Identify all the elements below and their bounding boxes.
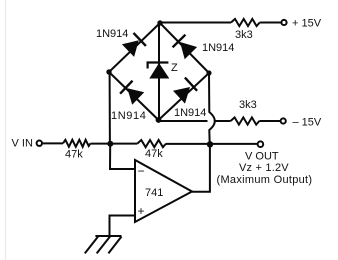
- wire: bridge edge left-node to bottom-node: [109, 72, 159, 120]
- svg-text:+: +: [138, 204, 145, 218]
- wire: V IN terminal to 47k input resistor: [42, 142, 63, 144]
- scan border artifact: [5, 0, 7, 260]
- zener diode Z: [148, 63, 170, 79]
- node: bridge left junction: [106, 69, 111, 74]
- wire: left node down to node A: [109, 72, 111, 144]
- wire: bridge edge top-node to right-node: [160, 23, 209, 73]
- wire: top node to +15V resistor: [160, 22, 231, 24]
- terminal circle +15V: [281, 20, 286, 25]
- wire: non-inverting input to ground: [110, 216, 136, 237]
- node: bridge right junction: [206, 70, 211, 75]
- svg-text:(Maximum Output): (Maximum Output): [217, 174, 313, 186]
- diode D1 1N914 (left node to top node): [122, 33, 146, 57]
- wire: zener branch vertical (top node to bottom node): [158, 23, 160, 120]
- svg-text:– 15V: – 15V: [293, 117, 322, 129]
- ground symbol: [85, 236, 122, 253]
- svg-text:1N914: 1N914: [202, 42, 234, 54]
- wire: op-amp output to node B: [192, 144, 210, 192]
- node: bridge bottom junction: [156, 117, 162, 123]
- diode D3 1N914 (bottom node to left node): [120, 81, 144, 105]
- resistor 3k3 (+15V branch): [231, 19, 260, 26]
- resistor 47k feedback: [137, 140, 166, 147]
- diode D4 1N914 (bottom node to right node): [173, 78, 197, 104]
- resistor 47k input: [63, 140, 91, 147]
- terminal circle V OUT: [258, 141, 264, 147]
- node: bridge top junction: [157, 20, 162, 25]
- svg-text:3k3: 3k3: [235, 29, 253, 41]
- node B junction (output): [207, 141, 213, 147]
- wire: bridge edge bottom-node to right-node: [159, 73, 210, 120]
- svg-text:1N914: 1N914: [174, 107, 206, 119]
- node A junction (summing input): [107, 141, 113, 147]
- svg-text:3k3: 3k3: [239, 99, 257, 111]
- svg-text:−: −: [138, 164, 145, 178]
- svg-text:Vz + 1.2V: Vz + 1.2V: [239, 162, 289, 174]
- wire: node A down and right to op-amp inverting input: [110, 144, 135, 169]
- svg-text:47k: 47k: [145, 148, 163, 160]
- svg-text:V OUT: V OUT: [245, 150, 279, 162]
- svg-text:1N914: 1N914: [111, 110, 146, 122]
- op-amp U1 741: [135, 160, 192, 222]
- svg-text:1N914: 1N914: [96, 28, 128, 40]
- wire: right node down with hop over -15V wire: [209, 73, 215, 144]
- svg-text:Z: Z: [171, 62, 178, 74]
- svg-text:+ 15V: + 15V: [292, 18, 322, 30]
- wire: resistor to +15V terminal: [260, 22, 281, 24]
- svg-text:47k: 47k: [65, 149, 83, 161]
- diode D2 1N914 (right node to top node): [173, 35, 198, 60]
- terminal circle -15V: [281, 118, 286, 123]
- wire: feedback resistor to node B and V OUT terminal: [166, 143, 258, 145]
- wire: bottom node to -15V resistor (breaks at crossover hop): [159, 120, 208, 122]
- svg-text:741: 741: [145, 187, 163, 199]
- wire: bridge edge left-node to top-node: [109, 23, 160, 72]
- resistor 3k3 (-15V branch): [231, 117, 260, 124]
- wire: resistor to -15V terminal: [259, 120, 280, 122]
- wire: input resistor to node A and on to feedback resistor: [91, 143, 138, 145]
- terminal circle V IN: [37, 141, 42, 146]
- svg-text:V IN: V IN: [12, 138, 33, 150]
